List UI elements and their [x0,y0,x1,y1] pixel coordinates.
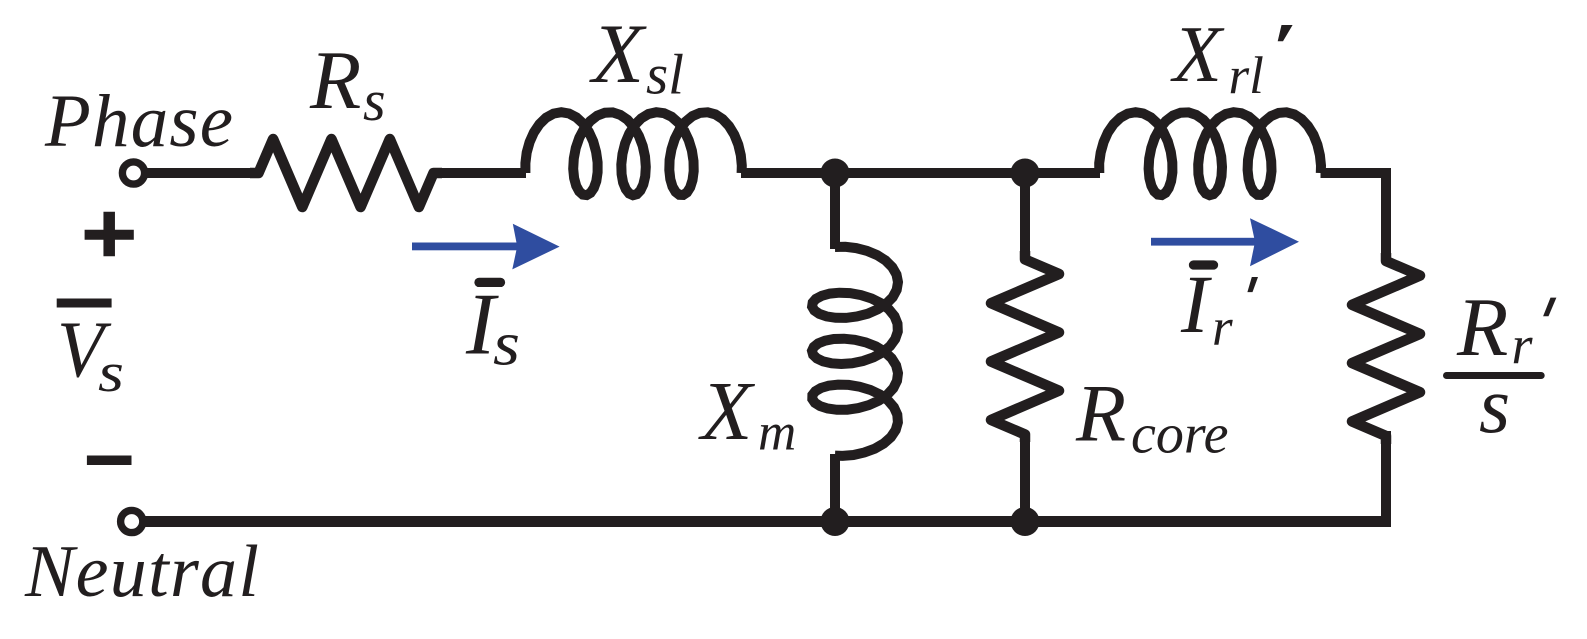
current arrow Ir' (blue) [1151,218,1299,266]
wire between Rs and Xsl [434,168,527,178]
svg-text:s: s [98,342,124,404]
wire R_core branch top stub [1020,173,1030,260]
overbar of Vs [57,299,112,308]
node A bottom (junction dot) [821,507,850,536]
svg-text:X: X [1170,11,1225,99]
wire top from Phase terminal to resistor Rs [146,168,259,178]
terminal Neutral (open circle) [121,510,143,532]
svg-text:s: s [1479,362,1510,450]
wire X_m branch bottom stub [830,454,840,522]
svg-text:R: R [309,34,361,127]
svg-text:s: s [363,68,386,133]
svg-text:m: m [758,404,796,462]
minus sign [87,456,132,466]
prime of R_r' [1543,298,1556,317]
node B top (junction dot) [1011,159,1040,188]
resistor R_r'/s [1352,253,1420,444]
svg-text:r: r [1512,315,1534,375]
terminal Phase (open circle) [122,162,144,184]
prime of X_rl' [1278,25,1293,41]
node B bottom (junction dot) [1011,507,1040,536]
svg-text:Neutral: Neutral [24,531,260,613]
node A top (junction dot) [821,159,850,188]
overbar of Ir' [1194,260,1214,269]
overbar of Is [479,278,501,287]
wire bottom from Neutral terminal to right corner [145,516,1391,527]
svg-text:R: R [1456,281,1508,374]
svg-text:X: X [589,7,647,101]
svg-text:s: s [493,310,520,378]
fraction bar of Rr'/s [1447,372,1542,379]
svg-text:Phase: Phase [44,80,234,163]
inductor X_rl' [1099,112,1321,195]
inductor X_m [812,247,898,456]
wire right bottom vertical [1381,431,1391,522]
resistor R_s [250,139,442,207]
plus sign [85,212,134,257]
current arrow Is (blue) [412,224,560,270]
svg-text:sl: sl [646,44,684,107]
inductor X_sl [525,112,741,195]
prime of I_r' [1247,277,1258,292]
svg-text:R: R [1075,368,1126,459]
wire X_m branch top stub [830,173,840,249]
svg-text:r: r [1212,299,1233,357]
wire top right and corner down [1321,173,1387,261]
svg-text:I: I [1180,258,1212,350]
svg-text:X: X [698,365,756,458]
svg-text:core: core [1131,404,1228,466]
svg-text:rl: rl [1229,47,1264,105]
wire top middle (through node A and node B) [741,168,1100,178]
wire R_core branch bottom stub [1020,434,1030,522]
resistor R_core [991,251,1059,442]
